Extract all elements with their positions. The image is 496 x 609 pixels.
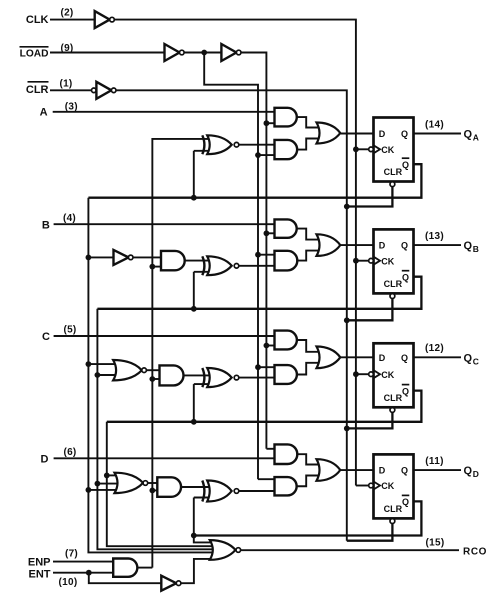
node junction QbarD feedback — [191, 533, 197, 539]
pin (12) label — [425, 343, 444, 354]
flip-flop U6 (QA) box — [374, 118, 414, 182]
pin (4) label — [63, 213, 76, 224]
and gate cell C load path — [275, 331, 297, 350]
node junction QbarA bus row B — [86, 255, 92, 261]
pin label CLR flip-flop D — [384, 504, 403, 514]
pin label CK flip-flop C — [381, 370, 394, 380]
svg-text:(1): (1) — [59, 79, 72, 90]
svg-text:B: B — [473, 244, 479, 254]
node junction enable bus row C — [149, 376, 155, 382]
node junction QbarA feedback — [191, 195, 197, 201]
pin CLR bubble flip-flop A — [390, 182, 395, 187]
svg-text:Q: Q — [464, 352, 473, 364]
pin CK wedge flip-flop B — [374, 257, 381, 265]
or gate cell C — [317, 347, 341, 369]
pin (13) label — [425, 231, 444, 242]
node D input label — [41, 454, 49, 466]
nor gate row C (QA.QB) — [113, 360, 146, 380]
pin CK bubble flip-flop D — [369, 483, 374, 488]
svg-text:CLR: CLR — [26, 84, 49, 96]
flip-flop U8 (QC) box — [374, 343, 414, 407]
wire AND bottom out to OR cell B — [297, 251, 323, 261]
pin label CLR flip-flop A — [384, 167, 403, 177]
svg-text:LOAD: LOAD — [20, 48, 49, 59]
wire ENP input — [53, 561, 113, 563]
svg-text:Q: Q — [402, 497, 409, 507]
svg-text:CK: CK — [381, 481, 394, 491]
wire RCO output — [241, 549, 459, 551]
pin CLR bubble flip-flop D — [390, 519, 395, 524]
node output QB label — [464, 240, 479, 254]
and gate row C enable — [160, 365, 184, 385]
wire XNOR-D output — [239, 490, 275, 492]
pin CK wedge flip-flop C — [374, 370, 381, 378]
svg-text:Q: Q — [401, 466, 408, 476]
wire NOR-D input QbarB — [97, 483, 121, 485]
svg-text:(11): (11) — [425, 456, 443, 467]
wire D input line — [54, 457, 275, 459]
node CLK input label — [26, 14, 49, 26]
wire QbarA to inverter B — [88, 256, 113, 258]
wire NOR-C input QbarB — [97, 374, 119, 376]
svg-text:CK: CK — [381, 370, 394, 380]
node output QD label — [464, 465, 479, 479]
inverter U3 (LOAD second) — [221, 44, 241, 61]
wire XNOR-D bottom input — [194, 498, 211, 536]
node ENP input label — [28, 556, 51, 568]
svg-text:B: B — [42, 219, 50, 231]
and gate cell A load path — [275, 108, 297, 127]
node output QC label — [464, 352, 479, 366]
wire LOAD'' bus tap cell B — [266, 232, 274, 234]
pin (7) label — [65, 548, 78, 559]
or gate cell B — [317, 234, 341, 256]
node junction LOAD'' cell C — [264, 343, 270, 349]
wire OR to D input cell A — [340, 133, 373, 135]
svg-text:(12): (12) — [425, 343, 444, 354]
wire OR to D input cell B — [340, 244, 373, 246]
wire QbarB bus — [97, 309, 217, 550]
or gate cell D — [317, 459, 341, 481]
svg-text:(3): (3) — [65, 101, 78, 112]
svg-text:ENP: ENP — [28, 556, 51, 568]
wire AND-B to XNOR-B — [185, 260, 211, 262]
node junction QbarB feedback — [191, 306, 197, 312]
wire Qbar loop flip-flop B — [97, 277, 421, 309]
wire AND bottom out to OR cell A — [297, 139, 323, 150]
wire AND-D to XNOR-D — [182, 486, 211, 488]
wire CLR to clear bus — [116, 90, 347, 540]
pin CK wedge flip-flop A — [374, 145, 381, 153]
pin (5) label — [63, 324, 76, 335]
svg-text:D: D — [379, 241, 386, 251]
node CLR input label — [26, 82, 49, 96]
node junction QbarA bus row C — [86, 361, 92, 367]
node junction LOAD' cell C — [255, 364, 261, 370]
pin (11) label — [425, 456, 443, 467]
wire ENT input — [53, 572, 113, 574]
wire NOR-D input QbarA — [88, 489, 121, 491]
pin CLR bubble flip-flop B — [390, 294, 395, 299]
wire CLK to clock bus — [114, 20, 356, 486]
wire AND top out to OR cell A — [297, 117, 323, 127]
pin label Q flip-flop C — [401, 353, 408, 363]
node junction QbarC bus row D — [104, 473, 110, 479]
wire CLR connection flip-flop C — [347, 412, 393, 428]
and gate cell B load path — [275, 219, 297, 237]
wire QbarA bus — [88, 198, 216, 553]
pin label Q flip-flop D — [401, 466, 408, 476]
svg-text:(7): (7) — [65, 548, 78, 559]
wire AND top out to OR cell C — [297, 340, 323, 352]
flip-flop U7 (QB) box — [374, 229, 414, 293]
pin CK bubble flip-flop A — [369, 147, 374, 152]
wire ENP-ENT AND output — [137, 567, 152, 569]
svg-text:(2): (2) — [60, 7, 73, 18]
node RCO output label — [463, 547, 487, 558]
node LOAD input label — [20, 47, 49, 60]
wire AND top out to OR cell B — [297, 229, 323, 240]
wire clock stub flip-flop A — [356, 148, 369, 150]
wire Qbar loop flip-flop C — [107, 391, 422, 422]
wire NOR-D input QbarC — [107, 474, 121, 476]
wire LOAD' bus — [204, 53, 258, 480]
pin label CK flip-flop B — [381, 256, 394, 266]
wire AND bottom out to OR cell D — [297, 476, 323, 487]
wire CLR input — [50, 89, 92, 91]
pin label CK flip-flop A — [381, 145, 394, 155]
pin CLR bubble flip-flop C — [390, 408, 395, 413]
wire LOAD input — [50, 52, 165, 54]
svg-text:D: D — [379, 466, 386, 476]
and gate cell D load path — [275, 444, 298, 464]
or gate cell A — [317, 123, 341, 144]
wire ENT to inverter — [89, 573, 162, 584]
node junction LOAD' cell B — [255, 252, 261, 258]
svg-text:C: C — [473, 356, 479, 366]
wire XNOR-B output — [239, 265, 275, 267]
pin label Qbar flip-flop B — [402, 271, 410, 283]
wire Q output flip-flop D — [414, 469, 462, 471]
node junction enable bus row B — [149, 264, 155, 270]
wire LOAD' bus corner into AND2-D — [258, 478, 275, 480]
wire XNOR-B bottom input — [194, 272, 211, 309]
node junction ENT — [86, 570, 92, 576]
wire LOAD'' bus corner into AND-D — [266, 448, 274, 450]
svg-text:CLR: CLR — [384, 279, 403, 289]
node junction clock bus C — [353, 371, 359, 377]
wire Qbar loop flip-flop D — [194, 501, 422, 535]
exclusive-NOR gate row D — [207, 481, 239, 502]
svg-text:CLK: CLK — [26, 14, 49, 26]
svg-text:Q: Q — [402, 160, 409, 170]
node junction LOAD'' cell A — [264, 120, 270, 126]
pin (6) label — [63, 447, 76, 458]
wire OR to D input cell C — [340, 356, 373, 358]
exclusive-NOR gate row A — [207, 135, 239, 154]
wire AND top out to OR cell D — [297, 454, 323, 464]
wire inverter B to AND — [133, 256, 161, 258]
svg-text:CLR: CLR — [384, 393, 403, 403]
wire XNOR-C bottom input — [194, 384, 211, 422]
node junction QbarC feedback — [191, 419, 197, 425]
pin label CLR flip-flop B — [384, 279, 403, 289]
pin label Qbar flip-flop C — [402, 385, 410, 397]
svg-text:D: D — [41, 454, 49, 466]
wire LOAD' bus tap cell C — [258, 366, 275, 368]
node ENT input label — [29, 568, 51, 580]
exclusive-NOR gate row D input arc — [202, 481, 204, 502]
exclusive-NOR gate row C input arc — [202, 368, 204, 387]
wire Q output flip-flop B — [414, 244, 462, 246]
pin (14) label — [425, 119, 444, 130]
wire CLR connection flip-flop B — [347, 299, 393, 321]
wire Q output flip-flop A — [414, 133, 462, 135]
svg-text:(4): (4) — [63, 213, 76, 224]
wire OR to D input cell D — [340, 469, 373, 471]
pin CK bubble flip-flop B — [369, 258, 374, 263]
node junction clear bus A — [344, 204, 350, 210]
pin label Q flip-flop A — [401, 129, 408, 139]
svg-text:(10): (10) — [59, 577, 78, 588]
wire clock stub flip-flop B — [356, 260, 369, 262]
wire XNOR-A bottom input — [194, 151, 211, 198]
exclusive-NOR gate row B — [207, 256, 239, 275]
wire CLK input — [50, 19, 95, 21]
node junction QbarA bus row D — [86, 487, 92, 493]
wire clock stub flip-flop D — [356, 485, 369, 487]
svg-text:CK: CK — [381, 145, 394, 155]
node output QA label — [464, 129, 479, 143]
and gate cell B count path — [275, 251, 298, 271]
wire ENP-ENT enable bus — [152, 139, 211, 568]
svg-text:(5): (5) — [63, 324, 76, 335]
svg-text:(14): (14) — [425, 119, 444, 130]
svg-text:Q: Q — [464, 240, 473, 252]
svg-text:D: D — [379, 353, 386, 363]
node junction clear bus B — [344, 317, 350, 323]
pin label Q flip-flop B — [401, 241, 408, 251]
inverter U4 (CLR buffer) — [92, 82, 116, 99]
pin CK wedge flip-flop D — [374, 482, 381, 490]
wire AND-D lower input — [152, 489, 157, 491]
svg-text:Q: Q — [464, 465, 473, 477]
svg-text:(15): (15) — [426, 538, 445, 549]
and gate cell D count path — [275, 477, 297, 495]
pin label D flip-flop C — [379, 353, 386, 363]
node junction clear bus C — [344, 426, 350, 432]
wire LOAD' bus tap cell A — [258, 154, 275, 156]
exclusive-NOR gate row C — [207, 368, 239, 387]
svg-text:RCO: RCO — [463, 547, 487, 558]
inverter U5 (QA buffer row B) — [114, 250, 134, 265]
and gate row B enable — [161, 251, 185, 270]
wire A input line — [53, 111, 275, 113]
pin (9) label — [60, 43, 73, 54]
node junction QbarB bus row D — [95, 481, 101, 487]
and gate ENP-ENT — [113, 559, 137, 577]
svg-text:Q: Q — [402, 386, 409, 396]
wire LOAD'' to bus — [241, 53, 266, 449]
flip-flop U9 (QD) box — [374, 454, 414, 518]
wire XNOR-A output — [239, 144, 275, 146]
node junction LOAD'' cell B — [264, 230, 270, 236]
wire AND-B lower input — [152, 266, 161, 268]
and gate row D enable — [157, 477, 181, 497]
wire AND bottom out to OR cell C — [297, 363, 323, 375]
wire QbarC bus — [107, 422, 217, 546]
wire Q output flip-flop C — [414, 356, 462, 358]
pin label Qbar flip-flop D — [402, 495, 410, 507]
svg-text:Q: Q — [401, 241, 408, 251]
pin label CLR flip-flop C — [384, 393, 403, 403]
and gate cell A count path — [275, 140, 298, 159]
and gate cell C count path — [275, 365, 297, 384]
svg-text:Q: Q — [401, 353, 408, 363]
wire LOAD'' bus tap cell C — [266, 345, 274, 347]
wire clock stub flip-flop C — [356, 373, 369, 375]
pin (2) label — [60, 7, 73, 18]
svg-text:Q: Q — [464, 129, 473, 141]
svg-text:D: D — [379, 129, 386, 139]
svg-text:Q: Q — [402, 273, 409, 283]
wire LOAD' bus tap cell B — [258, 254, 275, 256]
wire ENT' to RCO gate — [181, 559, 214, 583]
pin label D flip-flop A — [379, 129, 386, 139]
pin (1) label — [59, 79, 72, 90]
wire NOR-C to AND-C — [146, 369, 159, 371]
wire Qbar loop flip-flop A — [88, 164, 421, 198]
node B input label — [42, 219, 50, 231]
nor gate row D (QA.QB.QC) — [115, 473, 148, 493]
wire AND-C lower input — [152, 378, 159, 380]
pin label D flip-flop D — [379, 466, 386, 476]
svg-text:CLR: CLR — [384, 167, 403, 177]
pin (10) label — [59, 577, 78, 588]
svg-text:Q: Q — [401, 129, 408, 139]
nor gate RCO — [210, 540, 241, 560]
node junction LOAD' cell A — [255, 152, 261, 158]
wire AND-C to XNOR-C — [184, 374, 211, 376]
svg-text:ENT: ENT — [29, 568, 51, 580]
wire QbarD to RCO gate — [194, 536, 214, 543]
wire C input line — [54, 335, 275, 337]
node junction clock bus A — [353, 146, 359, 152]
exclusive-NOR gate row B input arc — [202, 256, 204, 275]
svg-text:A: A — [40, 107, 48, 119]
wire NOR-C input QbarA — [88, 363, 119, 365]
node junction QbarB bus row C — [95, 372, 101, 378]
node junction LOAD-bar — [201, 50, 207, 56]
pin label Qbar flip-flop A — [402, 158, 410, 170]
wire LOAD'' bus tap cell A — [266, 122, 274, 124]
wire CLR connection flip-flop A — [347, 187, 393, 207]
svg-text:(13): (13) — [425, 231, 444, 242]
node junction clock bus B — [353, 258, 359, 264]
pin (3) label — [65, 101, 78, 112]
wire LOAD inverted — [184, 52, 221, 54]
pin label D flip-flop B — [379, 241, 386, 251]
inverter U10 (ENT) — [161, 576, 181, 591]
wire NOR-D to AND-D — [148, 482, 158, 484]
node A input label — [40, 107, 48, 119]
pin (15) label — [426, 538, 445, 549]
inverter U1 (CLK buffer) — [95, 11, 115, 28]
svg-text:CLR: CLR — [384, 504, 403, 514]
pin CK bubble flip-flop C — [369, 372, 374, 377]
wire XNOR-C output — [239, 377, 275, 379]
svg-text:C: C — [42, 331, 50, 343]
exclusive-NOR gate row A input arc — [202, 135, 204, 154]
svg-text:CK: CK — [381, 256, 394, 266]
wire B input line — [54, 223, 275, 225]
node C input label — [42, 331, 50, 343]
svg-text:(6): (6) — [63, 447, 76, 458]
inverter U2 (LOAD first) — [165, 44, 185, 61]
node junction enable bus row D — [149, 488, 155, 494]
wire CLR connection flip-flop D — [347, 524, 393, 541]
svg-text:D: D — [473, 469, 479, 479]
svg-text:A: A — [473, 133, 479, 143]
pin label CK flip-flop D — [381, 481, 394, 491]
